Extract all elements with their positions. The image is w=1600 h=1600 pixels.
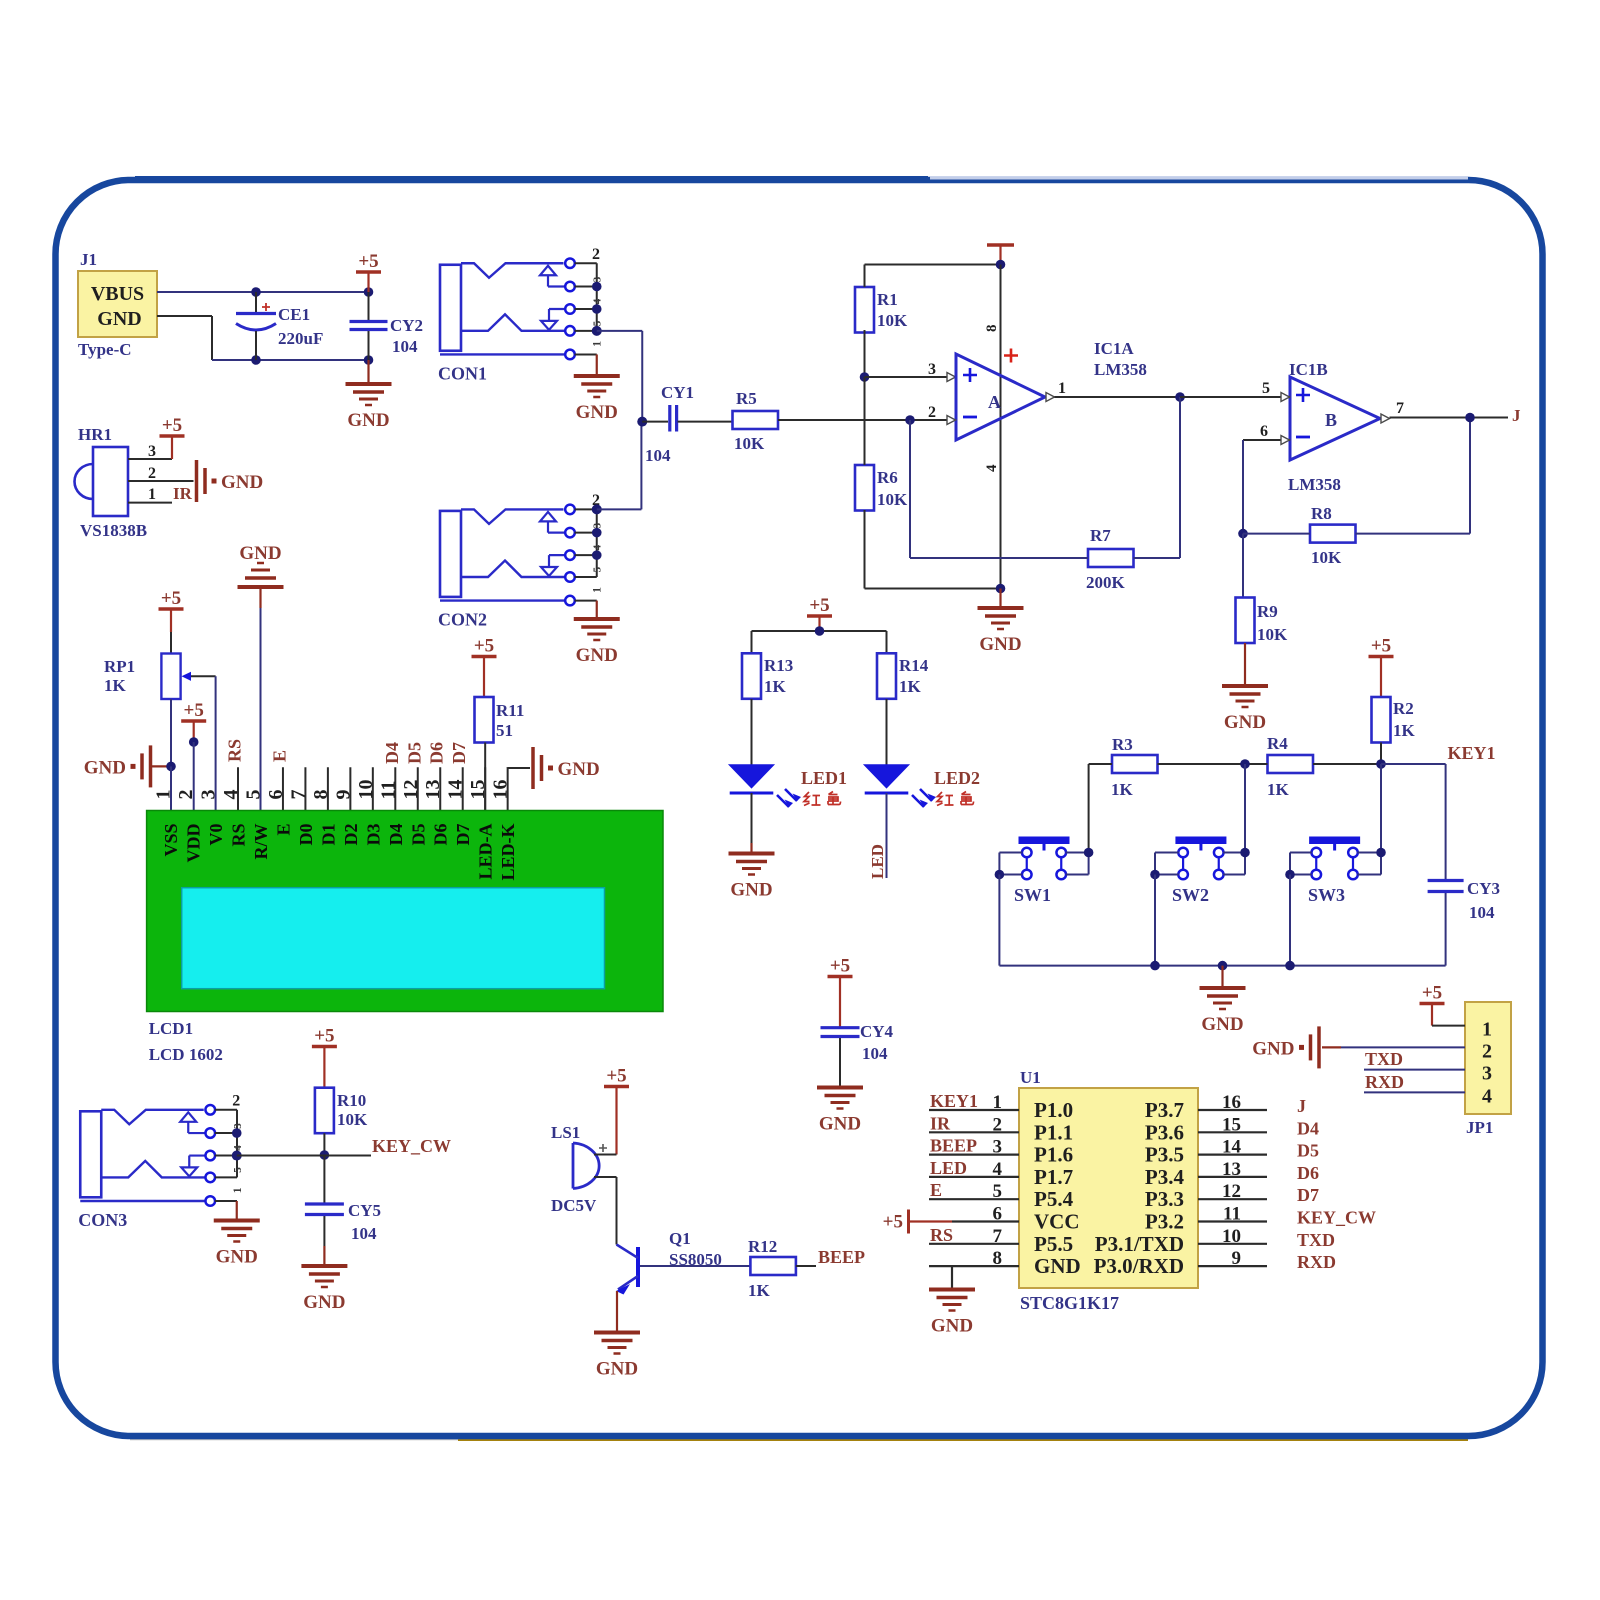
wires SW2 left xyxy=(1155,853,1179,875)
ground under CY2 xyxy=(346,384,392,431)
svg-text:+5: +5 xyxy=(830,956,850,977)
svg-text:3: 3 xyxy=(1482,1063,1492,1085)
svg-text:E: E xyxy=(930,1180,942,1200)
svg-text:STC8G1K17: STC8G1K17 xyxy=(1020,1293,1119,1313)
svg-text:200K: 200K xyxy=(1086,573,1126,592)
svg-text:104: 104 xyxy=(645,446,671,465)
svg-text:2: 2 xyxy=(148,465,156,482)
wire node to SW2 xyxy=(1244,764,1246,853)
ground at HR1 pin 2 xyxy=(197,460,264,502)
svg-text:1: 1 xyxy=(230,1187,244,1193)
pushbutton SW2 xyxy=(1172,837,1226,906)
svg-text:LS1: LS1 xyxy=(551,1123,580,1142)
+5 supply xyxy=(1369,636,1394,657)
LED LED1 xyxy=(730,765,801,807)
net label KEY1 xyxy=(1448,743,1496,763)
node SW2 left xyxy=(1150,870,1160,880)
svg-text:+5: +5 xyxy=(1422,983,1442,1004)
power +5 at CY2 xyxy=(367,272,369,292)
svg-text:D6: D6 xyxy=(1297,1163,1319,1183)
svg-text:P1.0: P1.0 xyxy=(1034,1098,1073,1122)
pushbutton SW1 xyxy=(1014,837,1070,906)
svg-text:SW3: SW3 xyxy=(1308,885,1345,905)
svg-text:CY5: CY5 xyxy=(348,1201,381,1220)
node CON2 contacts xyxy=(592,504,602,560)
svg-text:GND: GND xyxy=(1224,712,1266,733)
svg-text:14: 14 xyxy=(445,780,467,800)
svg-text:4: 4 xyxy=(1482,1085,1492,1107)
svg-text:104: 104 xyxy=(1469,903,1495,922)
wire R1 top to power rail xyxy=(865,265,1001,288)
wire KEY1 to CY3 xyxy=(1381,764,1446,879)
svg-text:GND: GND xyxy=(97,308,141,330)
wire U1 GND pin 8 xyxy=(951,1266,953,1288)
+5 supply xyxy=(604,1066,629,1087)
svg-text:2: 2 xyxy=(232,1092,240,1109)
svg-text:D5: D5 xyxy=(404,742,424,764)
svg-text:R1: R1 xyxy=(877,290,898,309)
svg-text:1: 1 xyxy=(1058,380,1066,397)
svg-text:CE1: CE1 xyxy=(278,305,310,324)
capacitor CY4 104 xyxy=(840,1022,894,1086)
wire pin6 vertical to R8 node xyxy=(1242,440,1244,534)
svg-text:12: 12 xyxy=(400,780,422,800)
resistor R11 51 xyxy=(475,697,494,743)
labels R7 xyxy=(1086,526,1126,592)
net label IR xyxy=(173,484,193,503)
wire LED supply rail xyxy=(752,631,887,653)
connector CON1 audio jack xyxy=(438,246,604,384)
svg-text:SW2: SW2 xyxy=(1172,885,1209,905)
svg-text:CY2: CY2 xyxy=(390,316,423,335)
wire RP1 wiper to LCD pin3 xyxy=(215,676,217,810)
ground under CON1 xyxy=(574,376,620,423)
svg-text:D5: D5 xyxy=(408,824,428,846)
wire R12 to BEEP xyxy=(796,1265,816,1267)
labels LCD1 xyxy=(149,1019,223,1064)
svg-text:P1.7: P1.7 xyxy=(1034,1165,1073,1189)
svg-text:J1: J1 xyxy=(80,250,97,269)
svg-text:10: 10 xyxy=(1222,1226,1241,1247)
svg-text:1K: 1K xyxy=(104,676,127,695)
svg-text:E: E xyxy=(269,750,289,762)
labels R10 xyxy=(337,1091,368,1129)
svg-text:+5: +5 xyxy=(809,595,829,616)
wire SW2 left down xyxy=(1154,875,1156,966)
svg-text:GND: GND xyxy=(347,410,389,431)
svg-text:7: 7 xyxy=(287,790,309,800)
connector CON3 body xyxy=(78,1092,244,1230)
svg-text:1: 1 xyxy=(590,341,604,347)
svg-text:2: 2 xyxy=(928,404,936,421)
nodes CON3 xyxy=(232,1128,242,1160)
svg-text:13: 13 xyxy=(422,780,444,800)
wires SW2 right xyxy=(1223,853,1245,875)
svg-text:P3.4: P3.4 xyxy=(1145,1165,1185,1189)
svg-text:1: 1 xyxy=(148,486,156,503)
resistor R5 10K xyxy=(733,411,779,429)
red + supply mark xyxy=(1004,349,1018,363)
wires SW1 right xyxy=(1066,853,1089,875)
svg-text:CY4: CY4 xyxy=(860,1022,894,1041)
svg-text:9: 9 xyxy=(1232,1248,1242,1269)
svg-text:TXD: TXD xyxy=(1365,1049,1403,1069)
svg-text:5: 5 xyxy=(1262,380,1270,397)
svg-text:GND: GND xyxy=(303,1292,345,1313)
svg-text:11: 11 xyxy=(1223,1204,1241,1225)
svg-text:5: 5 xyxy=(232,1167,244,1173)
wire IC1B pin 5 xyxy=(1180,380,1290,402)
power +5 at R10 xyxy=(323,1047,325,1088)
labels R14 xyxy=(899,656,929,696)
svg-text:+5: +5 xyxy=(184,700,204,721)
LCD pin stubs xyxy=(238,767,508,810)
svg-text:3: 3 xyxy=(993,1137,1003,1158)
svg-text:8: 8 xyxy=(310,790,332,800)
svg-text:R14: R14 xyxy=(899,656,929,675)
svg-text:E: E xyxy=(273,824,293,836)
node VBUS-CY2 xyxy=(364,287,374,297)
wire IC1A output xyxy=(1046,380,1290,402)
svg-text:16: 16 xyxy=(490,780,512,800)
svg-text:LCD1: LCD1 xyxy=(149,1019,193,1038)
ground under CON3 xyxy=(214,1221,260,1268)
wire SW1 left down xyxy=(998,875,1000,966)
ground under switches xyxy=(1200,988,1246,1035)
svg-text:GND: GND xyxy=(221,472,263,493)
net label J xyxy=(1512,406,1521,425)
svg-text:D4: D4 xyxy=(1297,1118,1319,1138)
wire Q1 emitter to ground xyxy=(616,1291,618,1331)
node CON1 contacts xyxy=(592,282,602,336)
labels IC1B xyxy=(1288,360,1341,494)
resistor R9 10K xyxy=(1236,598,1255,644)
svg-text:R9: R9 xyxy=(1257,602,1278,621)
net label KEY_CW xyxy=(372,1136,451,1156)
svg-text:R11: R11 xyxy=(496,701,524,720)
svg-text:D4: D4 xyxy=(382,742,402,764)
svg-text:3: 3 xyxy=(148,443,156,460)
power +5 at LCD pin2 xyxy=(193,721,195,742)
wire node to SW3 xyxy=(1380,764,1382,853)
wire CON3 pin1 to ground xyxy=(236,1201,238,1219)
svg-text:10K: 10K xyxy=(337,1110,368,1129)
svg-text:P3.3: P3.3 xyxy=(1145,1187,1184,1211)
U1 left net labels xyxy=(930,1091,978,1245)
+5 supply xyxy=(159,588,184,609)
resistor R13 1K xyxy=(742,653,761,699)
wire R1 bottom to pin 3 xyxy=(864,330,866,377)
node VBUS-CE1 xyxy=(251,287,261,297)
svg-text:1: 1 xyxy=(1482,1019,1492,1041)
wire pin2 down xyxy=(193,742,195,811)
wire pin1 down xyxy=(170,766,172,810)
svg-text:RS: RS xyxy=(930,1225,953,1245)
svg-text:1K: 1K xyxy=(899,677,922,696)
svg-text:KEY_CW: KEY_CW xyxy=(1297,1208,1376,1228)
+5 supply xyxy=(828,956,853,977)
svg-text:R13: R13 xyxy=(764,656,793,675)
svg-text:1K: 1K xyxy=(1393,721,1416,740)
node pin3 divider xyxy=(860,372,870,382)
svg-text:TXD: TXD xyxy=(1297,1230,1335,1250)
svg-text:9: 9 xyxy=(332,790,354,800)
labels R1 xyxy=(877,290,908,330)
svg-text:Q1: Q1 xyxy=(669,1229,691,1248)
svg-text:R7: R7 xyxy=(1090,526,1111,545)
svg-text:+5: +5 xyxy=(883,1212,903,1233)
resistor R12 1K xyxy=(750,1257,796,1275)
inverted ground above LCD xyxy=(238,543,284,587)
ground under CON2 xyxy=(574,619,620,666)
node CY1 junction xyxy=(637,417,647,427)
svg-text:GND: GND xyxy=(979,634,1021,655)
svg-text:LED-A: LED-A xyxy=(476,824,496,880)
svg-text:7: 7 xyxy=(993,1226,1003,1247)
capacitor CY5 plates xyxy=(305,1204,344,1215)
svg-text:4: 4 xyxy=(592,544,604,550)
wire feedback vertical xyxy=(1179,397,1181,558)
svg-text:3: 3 xyxy=(592,276,604,282)
svg-text:J: J xyxy=(1512,406,1521,425)
svg-text:1: 1 xyxy=(153,790,175,800)
svg-text:D7: D7 xyxy=(1297,1185,1319,1205)
power +5 at U1 VCC xyxy=(883,1210,1019,1234)
+5 supply xyxy=(312,1026,337,1047)
svg-text:1: 1 xyxy=(590,587,604,593)
power +5 at R11 xyxy=(483,657,485,697)
svg-text:BEEP: BEEP xyxy=(818,1247,865,1267)
svg-text:16: 16 xyxy=(1222,1092,1241,1113)
svg-text:GND: GND xyxy=(1034,1254,1081,1278)
node SW2 right xyxy=(1240,848,1250,858)
svg-text:D4: D4 xyxy=(386,824,406,846)
wire R8 right to output xyxy=(1356,418,1471,534)
svg-text:11: 11 xyxy=(377,781,399,800)
svg-text:VS1838B: VS1838B xyxy=(80,521,147,540)
wire IC1B pin 6 xyxy=(1243,423,1290,445)
wire SW3 left down xyxy=(1289,875,1291,966)
svg-text:+5: +5 xyxy=(161,588,181,609)
+5 supply xyxy=(472,636,497,657)
svg-text:VSS: VSS xyxy=(161,824,181,857)
svg-text:P3.7: P3.7 xyxy=(1145,1098,1184,1122)
labels R4 xyxy=(1267,734,1290,799)
svg-text:LM358: LM358 xyxy=(1094,360,1147,379)
border frame xyxy=(130,1438,470,1441)
wire R13 to LED1 xyxy=(751,699,753,765)
node KEY_CW xyxy=(320,1150,330,1160)
svg-text:GND: GND xyxy=(1252,1038,1294,1059)
svg-text:J: J xyxy=(1297,1096,1306,1116)
svg-text:1K: 1K xyxy=(1267,780,1290,799)
node R2/KEY1 xyxy=(1376,759,1386,769)
svg-text:LED: LED xyxy=(868,844,887,879)
labels R13 xyxy=(764,656,793,696)
svg-text:6: 6 xyxy=(1260,423,1268,440)
svg-text:GND: GND xyxy=(239,543,281,564)
svg-text:10K: 10K xyxy=(1257,625,1288,644)
svg-text:51: 51 xyxy=(496,721,513,740)
svg-text:5: 5 xyxy=(592,320,604,326)
svg-text:Type-C: Type-C xyxy=(78,340,132,359)
svg-text:5: 5 xyxy=(592,566,604,572)
svg-text:+5: +5 xyxy=(606,1066,626,1087)
svg-text:4: 4 xyxy=(232,1145,244,1151)
wire CON2 pin1 to ground xyxy=(596,601,598,618)
node LCD pin1 gnd xyxy=(166,762,176,772)
svg-text:R5: R5 xyxy=(736,389,757,408)
svg-text:R6: R6 xyxy=(877,468,898,487)
wire CON1 pin1 to ground xyxy=(596,354,598,375)
power +5 at RP1 xyxy=(170,609,172,654)
wire R3 left to SW1 xyxy=(1089,764,1112,853)
ground under CY4 xyxy=(817,1088,863,1135)
labels R3 xyxy=(1111,735,1134,799)
svg-text:VCC: VCC xyxy=(1034,1210,1080,1234)
svg-text:2: 2 xyxy=(592,246,600,263)
+5 supply xyxy=(807,595,832,616)
ground under CY5 xyxy=(301,1266,347,1313)
wire CON3 to KEY_CW xyxy=(237,1155,371,1157)
svg-text:15: 15 xyxy=(1222,1114,1241,1135)
node pin2 xyxy=(189,737,199,747)
svg-text:LM358: LM358 xyxy=(1288,475,1341,494)
svg-text:2: 2 xyxy=(993,1114,1003,1135)
header JP1 xyxy=(1465,1002,1511,1137)
svg-text:D6: D6 xyxy=(427,742,447,764)
ground under U1 xyxy=(929,1290,975,1337)
svg-text:LED: LED xyxy=(930,1158,967,1178)
svg-text:+5: +5 xyxy=(358,251,378,272)
capacitor CY4 plates xyxy=(821,1028,860,1037)
wire R7 left to pin2 node xyxy=(910,420,1088,558)
svg-text:3: 3 xyxy=(928,361,936,378)
wire RP1 bottom to ground node xyxy=(170,699,172,766)
resistor R4 1K xyxy=(1268,755,1314,773)
connector CON2 audio jack xyxy=(438,492,604,630)
labels R6 xyxy=(877,468,908,509)
svg-text:+5: +5 xyxy=(162,415,182,436)
svg-text:SW1: SW1 xyxy=(1014,885,1051,905)
+5 supply at HR1 xyxy=(160,415,185,436)
svg-text:GND: GND xyxy=(931,1316,973,1337)
svg-text:14: 14 xyxy=(1222,1137,1242,1158)
svg-text:U1: U1 xyxy=(1020,1068,1041,1087)
svg-text:A: A xyxy=(988,392,1001,412)
wire pin3 node to R6 xyxy=(864,377,866,465)
svg-text:D7: D7 xyxy=(449,742,469,764)
svg-text:R8: R8 xyxy=(1311,504,1332,523)
ground under Q1 xyxy=(594,1333,640,1380)
svg-text:2: 2 xyxy=(1482,1040,1492,1062)
node R5/R7 feedback xyxy=(905,415,915,425)
svg-text:CY1: CY1 xyxy=(661,383,694,402)
wire R8 left xyxy=(1243,533,1310,535)
svg-text:LCD 1602: LCD 1602 xyxy=(149,1045,223,1064)
svg-text:P3.1/TXD: P3.1/TXD xyxy=(1095,1232,1184,1256)
wire LCD pin16 to ground xyxy=(508,766,530,769)
svg-text:D5: D5 xyxy=(1297,1141,1319,1161)
svg-text:10: 10 xyxy=(355,780,377,800)
svg-text:12: 12 xyxy=(1222,1181,1241,1202)
svg-text:GND: GND xyxy=(576,402,618,423)
svg-text:VDD: VDD xyxy=(184,824,204,863)
svg-text:D1: D1 xyxy=(318,824,338,846)
pushbutton SW3 xyxy=(1308,837,1360,906)
svg-text:R10: R10 xyxy=(337,1091,366,1110)
wire Q1 base to R12 xyxy=(640,1265,750,1267)
resistor R10 10K xyxy=(315,1088,334,1134)
svg-text:CON1: CON1 xyxy=(438,363,487,383)
U1 left pin wires and numbers xyxy=(929,1092,1019,1269)
svg-text:1K: 1K xyxy=(1111,780,1134,799)
power +5 at CY4 xyxy=(839,977,841,1027)
IR receiver HR1 VS1838B xyxy=(75,425,148,540)
svg-text:1: 1 xyxy=(993,1092,1003,1113)
wire LED1 to ground xyxy=(751,793,753,852)
wire CY2 to ground xyxy=(367,360,369,383)
svg-text:KEY1: KEY1 xyxy=(930,1091,978,1111)
transistor Q1 SS8050 xyxy=(616,1229,722,1295)
labels R11 xyxy=(496,701,524,740)
power +5 at LS1 xyxy=(615,1087,617,1155)
svg-text:LED1: LED1 xyxy=(801,768,847,788)
svg-text:1K: 1K xyxy=(764,677,787,696)
wire HR1 pin 3 to +5 xyxy=(128,436,172,460)
LCD1 display LCD 1602 xyxy=(147,811,663,1012)
nodes on bottom rail xyxy=(1150,961,1295,971)
labels R5 xyxy=(734,389,765,453)
LCD pin numbers xyxy=(153,780,512,800)
svg-text:P5.5: P5.5 xyxy=(1034,1232,1073,1256)
+5 supply xyxy=(1420,983,1445,1004)
node R3/R4/SW2 xyxy=(1240,759,1250,769)
labels R2 xyxy=(1393,699,1416,740)
svg-text:P3.2: P3.2 xyxy=(1145,1210,1184,1234)
wire IC1B output pin 7 xyxy=(1381,400,1508,423)
wires SW3 left xyxy=(1290,853,1312,875)
svg-text:CON3: CON3 xyxy=(78,1210,127,1230)
node SW1 left xyxy=(995,870,1005,880)
svg-text:3: 3 xyxy=(232,1123,244,1129)
svg-text:4: 4 xyxy=(220,790,242,800)
labels IC1A LM358 xyxy=(1094,339,1147,379)
svg-text:3: 3 xyxy=(592,522,604,528)
svg-text:GND: GND xyxy=(216,1247,258,1268)
wire R4 right to R2 node xyxy=(1313,763,1381,765)
node output J xyxy=(1465,413,1475,423)
svg-text:104: 104 xyxy=(351,1224,377,1243)
labels R8 xyxy=(1311,504,1342,567)
capacitor CY3 104 xyxy=(1446,879,1500,966)
U1 right pin wires numbers labels xyxy=(1198,1092,1376,1272)
op-amp IC1B LM358 xyxy=(1290,377,1380,460)
wire JP1 pin2 to ground xyxy=(1322,1046,1465,1048)
svg-text:13: 13 xyxy=(1222,1159,1241,1180)
wire gnd stub xyxy=(152,765,171,767)
ground at LCD pin1 xyxy=(84,745,151,787)
svg-text:1K: 1K xyxy=(748,1281,771,1300)
svg-text:R/W: R/W xyxy=(251,824,271,860)
labels R12 xyxy=(748,1237,777,1300)
ground under op-amp xyxy=(978,608,1024,655)
wire R8 node to R9 xyxy=(1242,534,1244,598)
svg-text:10K: 10K xyxy=(1311,548,1342,567)
svg-text:+5: +5 xyxy=(474,636,494,657)
svg-text:7: 7 xyxy=(1396,400,1404,417)
wire switch bottom rail xyxy=(999,965,1445,967)
